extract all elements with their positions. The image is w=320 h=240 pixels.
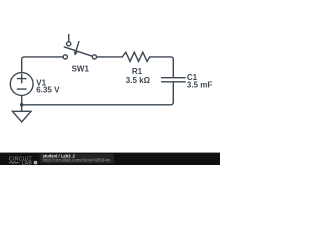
switch SW1 arrowhead xyxy=(74,51,78,55)
ground xyxy=(12,111,31,122)
voltage source V1 xyxy=(10,73,33,96)
switch SW1 top terminal xyxy=(67,42,71,46)
svg-text:R1: R1 xyxy=(132,67,143,76)
watermark text plate xyxy=(40,154,115,164)
junction node at V1/ground/bottom wire xyxy=(20,103,24,107)
V1 minus sign xyxy=(17,88,26,90)
wire top-left: V1 top to switch left terminal xyxy=(22,57,64,73)
svg-text:6.35 V: 6.35 V xyxy=(36,86,60,95)
wire: V1 bottom to ground xyxy=(21,95,23,111)
svg-text:SW1: SW1 xyxy=(72,65,90,74)
wire: capacitor bottom to bottom-right corner to left junction xyxy=(22,82,174,105)
switch SW1 right terminal xyxy=(92,55,96,59)
capacitor C1 xyxy=(161,78,186,82)
switch SW1 left terminal xyxy=(63,55,67,59)
svg-text:http://circuitlab.com/c6myf42f: http://circuitlab.com/c6myf42f684m xyxy=(43,158,111,163)
V1 plus sign xyxy=(17,74,26,83)
svg-text:LAB: LAB xyxy=(22,160,33,165)
svg-text:3.5 mF: 3.5 mF xyxy=(187,81,212,90)
switch SW1 top stub xyxy=(68,34,70,41)
wire: resistor to top-right corner down to capacitor xyxy=(150,57,174,77)
switch SW1 actuator arrow shaft xyxy=(76,42,79,52)
CircuitLab logo resistor zigzag xyxy=(9,161,20,163)
CircuitLab logo light block xyxy=(34,161,37,164)
watermark bar xyxy=(0,153,220,165)
wire: switch right terminal to resistor xyxy=(96,56,122,58)
resistor R1 xyxy=(122,52,150,61)
svg-text:3.5 kΩ: 3.5 kΩ xyxy=(126,76,151,85)
switch SW1 blade xyxy=(64,47,92,56)
